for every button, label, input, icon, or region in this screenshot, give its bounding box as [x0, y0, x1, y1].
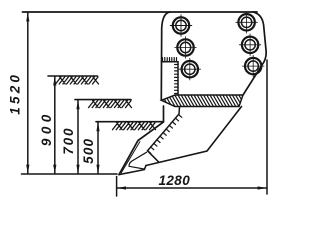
dimension line 1280: [117, 187, 267, 189]
beam section bar: [161, 95, 243, 107]
rack ledge: [161, 61, 178, 63]
shank serration ticks: [148, 115, 182, 154]
extension line at tooth tip: [116, 177, 118, 197]
dimension line 1520: [27, 13, 29, 174]
rack vertical edge: [177, 62, 179, 95]
top reference line: [23, 11, 258, 13]
ground hatch 500: [113, 123, 156, 130]
arrow 1280 left: [117, 186, 126, 189]
svg-text:500: 500: [81, 138, 96, 164]
tooth bottom step: [119, 166, 146, 175]
bolt hole H4: [236, 12, 258, 34]
arrow 1280 right: [258, 186, 267, 189]
arrow 900 down: [53, 165, 56, 174]
bolt hole H1: [170, 15, 192, 37]
dimension line 900: [54, 77, 56, 174]
shank serrated edge: [148, 107, 180, 151]
plate body outline: [161, 12, 266, 100]
arrow 500 down: [96, 165, 99, 174]
extension line at plate rear: [266, 60, 268, 194]
bolt hole H2: [175, 37, 197, 59]
tooth inner front line: [121, 142, 140, 173]
ground hatch 700: [89, 101, 132, 108]
bolt hole H3: [179, 58, 201, 80]
shank lower diagonal edge: [146, 107, 242, 166]
bolt hole H6: [242, 55, 264, 77]
arrow 900 up: [53, 76, 56, 85]
rack ledge ticks: [163, 58, 177, 62]
svg-text:1520: 1520: [7, 72, 22, 115]
rack vertical ticks: [175, 65, 178, 94]
ground line depth 500: [96, 121, 163, 123]
arrow 1520 down: [26, 165, 29, 174]
shank front edge: [119, 106, 164, 175]
dimension line 700: [77, 100, 79, 173]
svg-text:700: 700: [61, 127, 76, 155]
tooth back edge: [148, 151, 159, 162]
arrow 700 down: [76, 165, 79, 174]
bolt hole H5: [239, 34, 261, 56]
dimension line 500: [97, 122, 99, 173]
ground line depth 900: [48, 75, 98, 77]
tooth socket bracket: [129, 152, 147, 169]
svg-text:900: 900: [39, 110, 54, 146]
arrow 700 up: [76, 100, 79, 109]
svg-text:1280: 1280: [158, 173, 190, 188]
arrow 1520 up: [26, 12, 29, 21]
ground hatch 900: [56, 77, 99, 84]
ground line depth 700: [75, 99, 131, 101]
baseline: [22, 173, 118, 175]
arrow 500 up: [96, 122, 99, 131]
beam bar hatching: [155, 94, 252, 107]
